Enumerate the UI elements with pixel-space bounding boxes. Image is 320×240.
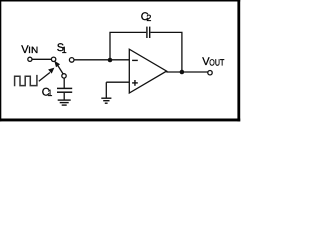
wire switch throw to op-amp inverting input (74, 59, 129, 61)
label VOUT (202, 56, 224, 68)
label C1 (42, 86, 53, 98)
label S1 (57, 42, 67, 55)
label VIN (21, 44, 38, 56)
ground at non-inverting input (101, 82, 111, 103)
wire non-inverting input (106, 81, 129, 83)
switch S1 (51, 57, 74, 78)
svg-text:1: 1 (62, 45, 67, 55)
wire feedback left leg (110, 32, 146, 59)
node VIN input terminal (28, 57, 32, 61)
wire VIN to switch pole (32, 58, 51, 60)
svg-text:IN: IN (28, 45, 38, 55)
wire switch common to C1 (63, 78, 65, 88)
svg-text:OUT: OUT (209, 58, 224, 68)
clock source square wave (15, 75, 37, 86)
node VOUT output terminal (208, 71, 212, 75)
wire op-amp output to VOUT (166, 71, 208, 73)
node junction at output (180, 70, 185, 75)
clock drive arrow (39, 68, 55, 82)
op-amp U1 (129, 49, 166, 93)
node junction at inverting input (108, 58, 113, 63)
wire feedback right leg (151, 32, 182, 72)
capacitor C1 (57, 88, 72, 92)
svg-text:1: 1 (47, 88, 52, 98)
capacitor C2 (147, 27, 150, 38)
svg-text:2: 2 (146, 13, 151, 23)
label C2 (141, 11, 152, 23)
wire C1 to ground (63, 93, 65, 100)
ground below C1 (58, 100, 71, 105)
